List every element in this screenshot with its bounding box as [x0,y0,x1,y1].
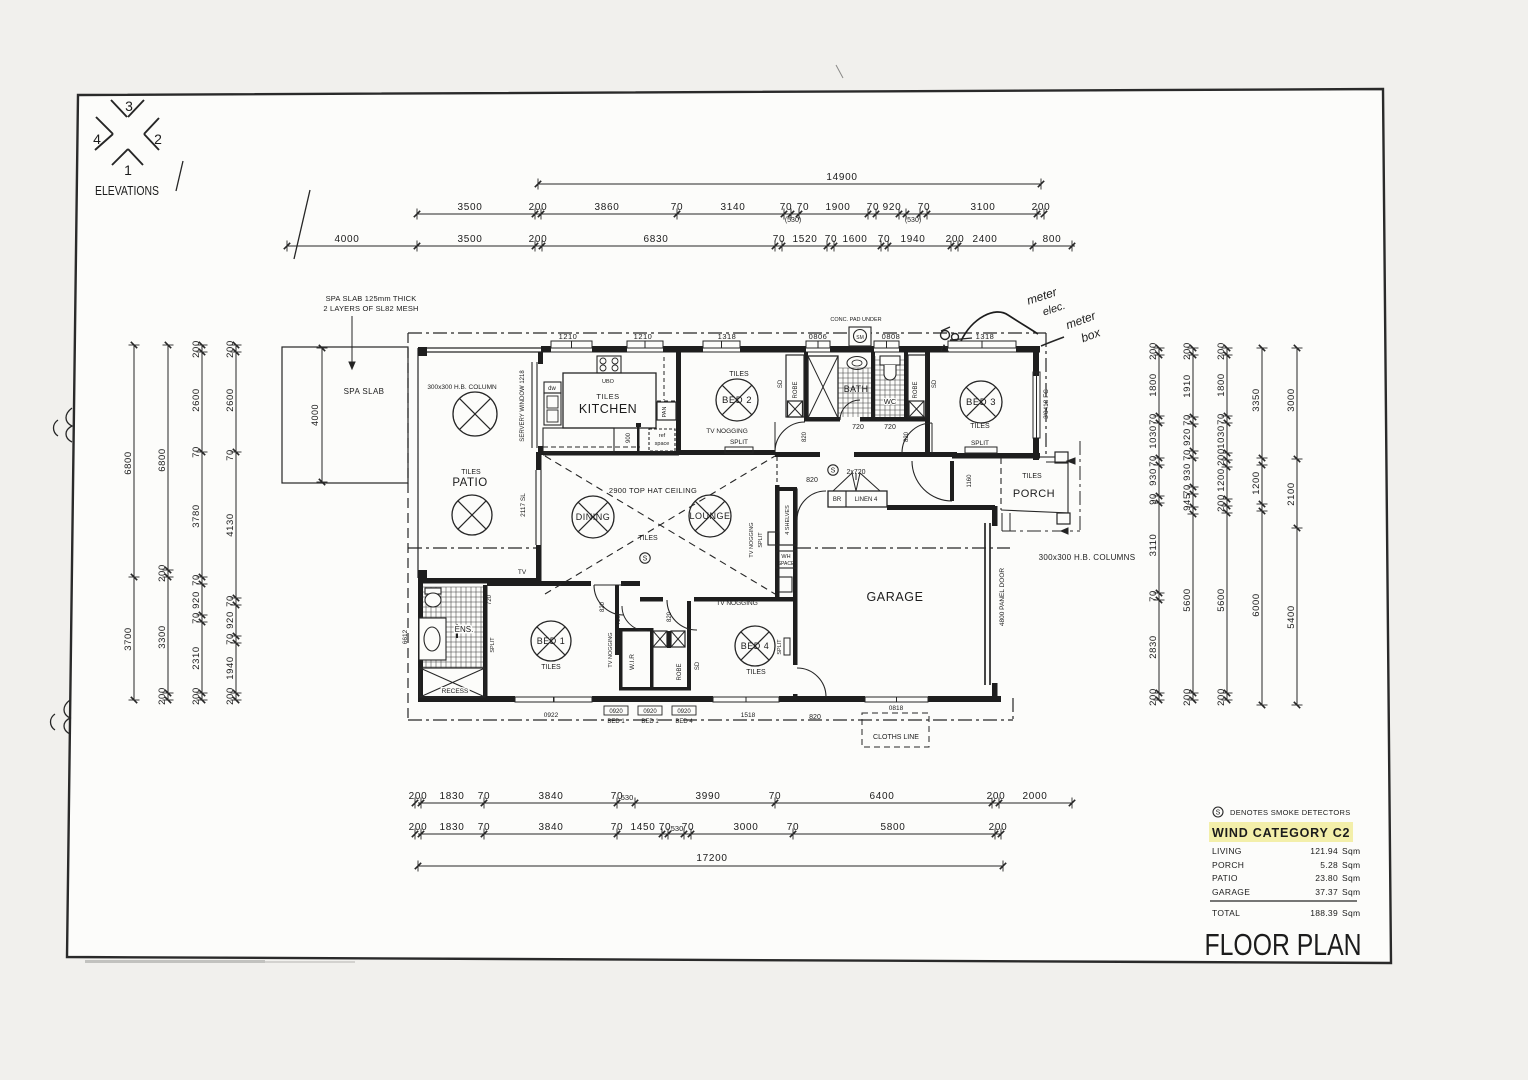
svg-text:SPLIT: SPLIT [777,639,783,655]
svg-text:0808: 0808 [882,332,901,341]
svg-text:200: 200 [1032,202,1051,213]
svg-text:5800: 5800 [880,822,905,833]
svg-text:70: 70 [1148,455,1159,467]
svg-text:TV NOGGING: TV NOGGING [706,428,748,435]
svg-text:TV NOGGING: TV NOGGING [716,600,758,607]
bed 4 [735,626,775,666]
svg-text:200: 200 [1148,342,1159,360]
svg-text:70: 70 [225,449,236,461]
kitchen [563,373,656,428]
svg-text:820: 820 [667,611,673,622]
svg-text:5400: 5400 [1286,605,1297,629]
svg-text:1160: 1160 [967,474,973,488]
svg-text:W.I.R: W.I.R [629,654,636,670]
svg-text:1800: 1800 [1148,373,1159,397]
svg-text:6800: 6800 [157,448,168,472]
svg-text:70: 70 [191,574,202,586]
svg-text:SPACE: SPACE [778,561,795,567]
svg-text:SPLIT: SPLIT [490,637,496,653]
border break squiggles [66,408,72,442]
svg-text:PATIO: PATIO [1212,873,1238,883]
exterior walls [418,347,541,349]
svg-text:ROBE: ROBE [677,663,683,680]
svg-text:S: S [1216,810,1221,817]
svg-text:GARAGE: GARAGE [1212,887,1250,897]
svg-text:200: 200 [529,202,548,213]
svg-text:3700: 3700 [123,627,134,651]
svg-text:0920: 0920 [677,709,691,715]
svg-text:200: 200 [1182,688,1193,706]
svg-text:1940: 1940 [900,234,925,245]
shelves [779,489,797,545]
svg-text:2600: 2600 [191,388,202,412]
svg-text:200: 200 [225,687,236,705]
svg-text:820: 820 [802,431,808,442]
top dimension chain row3 [287,245,1075,247]
legend smoke detectors [1213,807,1223,817]
svg-text:BR: BR [833,497,842,503]
sheet border [67,89,1391,963]
svg-text:945: 945 [1182,493,1193,511]
svg-text:ref: ref [659,433,666,439]
svg-text:ROBE: ROBE [913,381,919,398]
svg-text:920: 920 [883,202,902,213]
svg-text:6612: 6612 [402,629,409,644]
svg-text:BED 4: BED 4 [675,719,693,725]
svg-text:PATIO: PATIO [452,477,487,489]
svg-text:1940: 1940 [225,656,236,680]
svg-text:TOTAL: TOTAL [1212,908,1240,918]
svg-text:SPA SLAB: SPA SLAB [344,387,385,396]
svg-text:2830: 2830 [1148,635,1159,659]
svg-text:SPLIT: SPLIT [971,440,989,447]
bed 3 [960,381,1002,423]
svg-text:GARAGE: GARAGE [866,590,923,604]
svg-text:70: 70 [1148,413,1159,425]
svg-text:1: 1 [124,162,132,178]
svg-text:200: 200 [157,687,168,705]
svg-text:70: 70 [769,791,782,802]
svg-text:BED 1: BED 1 [537,636,566,646]
svg-text:820: 820 [809,714,821,721]
svg-text:3000: 3000 [1286,388,1297,412]
svg-text:1830: 1830 [439,791,464,802]
svg-text:TILES: TILES [746,669,766,676]
svg-text:530: 530 [621,793,634,802]
interior walls [676,352,681,455]
svg-text:820: 820 [806,477,818,484]
svg-text:SD: SD [778,379,784,388]
svg-text:SD: SD [695,661,701,670]
svg-text:200: 200 [1216,448,1227,466]
svg-text:3'0418 FC: 3'0418 FC [1043,389,1050,419]
svg-text:23.80: 23.80 [1315,873,1338,883]
svg-text:1030: 1030 [1148,425,1159,449]
svg-text:200: 200 [1216,494,1227,512]
svg-text:SPLIT: SPLIT [758,532,764,548]
svg-text:6830: 6830 [643,234,668,245]
svg-text:DINING: DINING [576,512,611,522]
svg-text:1210: 1210 [634,332,653,341]
svg-text:KITCHEN: KITCHEN [579,402,637,416]
svg-text:6000: 6000 [1251,593,1262,617]
svg-text:70: 70 [797,202,810,213]
svg-text:2100: 2100 [1286,482,1297,506]
svg-text:70: 70 [191,612,202,624]
svg-text:0922: 0922 [544,712,559,719]
elevation marker [111,100,144,117]
svg-text:4000: 4000 [310,404,320,426]
svg-text:LINEN 4: LINEN 4 [855,497,878,503]
svg-text:1800: 1800 [1216,373,1227,397]
svg-text:2117 SL: 2117 SL [520,493,527,517]
svg-text:SERVERY WINDOW 1218: SERVERY WINDOW 1218 [520,370,526,442]
svg-text:200: 200 [1216,688,1227,706]
svg-text:70: 70 [478,791,491,802]
svg-text:200: 200 [1216,342,1227,360]
2900 top hat ceiling dashed X [545,456,775,594]
svg-text:TILES: TILES [1022,473,1042,480]
svg-text:930: 930 [1182,463,1193,481]
svg-text:0920: 0920 [609,709,623,715]
svg-text:820: 820 [600,601,606,612]
svg-text:37.37: 37.37 [1315,887,1338,897]
wind category highlight [1209,822,1353,842]
svg-text:70: 70 [478,822,491,833]
wc [875,356,905,417]
svg-text:920: 920 [1182,428,1193,446]
svg-text:TILES: TILES [541,664,561,671]
svg-text:2600: 2600 [225,388,236,412]
door arcs [775,422,805,452]
svg-text:PORCH: PORCH [1212,860,1244,870]
svg-text:4000: 4000 [334,234,359,245]
svg-text:14900: 14900 [826,172,857,183]
svg-text:0818: 0818 [889,705,904,712]
svg-text:RECESS: RECESS [442,688,469,695]
svg-text:3350: 3350 [1251,388,1262,412]
svg-text:4800 PANEL DOOR: 4800 PANEL DOOR [999,568,1006,626]
handwritten meter box notes [961,312,1038,341]
eave overhang dash-dot outline [408,332,1046,334]
svg-text:1200: 1200 [1251,471,1262,495]
svg-text:PORCH: PORCH [1013,488,1055,500]
svg-text:3110: 3110 [1148,534,1159,557]
svg-text:TV NOGGING: TV NOGGING [749,522,755,557]
svg-text:70: 70 [1148,590,1159,602]
svg-text:200: 200 [191,340,202,358]
svg-text:TILES: TILES [729,371,749,378]
top dimension chain 14900 [538,183,1041,185]
linen [828,465,838,475]
svg-text:930: 930 [1148,468,1159,486]
svg-text:1030: 1030 [1216,425,1227,449]
svg-text:720: 720 [487,594,493,605]
top dimension chain row2 [417,213,1041,215]
svg-text:200: 200 [989,822,1008,833]
ensuite [421,587,485,668]
svg-text:FLOOR PLAN: FLOOR PLAN [1205,927,1362,962]
svg-text:ENS.: ENS. [455,625,474,634]
svg-text:820: 820 [904,431,910,442]
svg-text:70: 70 [1182,414,1193,426]
svg-text:S: S [831,468,836,475]
svg-text:6800: 6800 [123,451,134,475]
svg-text:1520: 1520 [792,234,817,245]
right dimension chains [1158,348,1160,700]
svg-text:SPLIT: SPLIT [730,439,748,446]
svg-text:2000: 2000 [1022,791,1047,802]
svg-text:1910: 1910 [1182,374,1193,398]
svg-text:300x300 H.B. COLUMN: 300x300 H.B. COLUMN [427,384,497,391]
svg-text:1518: 1518 [741,712,756,719]
svg-text:3500: 3500 [457,202,482,213]
svg-text:BED 4: BED 4 [741,641,770,651]
svg-text:LOUNGE: LOUNGE [689,511,730,521]
svg-text:900: 900 [626,432,632,443]
svg-text:4 SHELVES: 4 SHELVES [785,505,791,535]
svg-text:SM: SM [856,335,864,341]
svg-text:ELEVATIONS: ELEVATIONS [95,183,159,198]
svg-text:2 LAYERS OF SL82 MESH: 2 LAYERS OF SL82 MESH [323,304,418,313]
bath [808,356,838,418]
svg-text:BED 1: BED 1 [607,719,625,725]
svg-text:720: 720 [852,424,864,431]
svg-text:920: 920 [191,591,202,609]
svg-text:188.39: 188.39 [1310,908,1338,918]
svg-text:70: 70 [682,822,695,833]
svg-text:BED 1: BED 1 [641,719,659,725]
svg-text:3990: 3990 [695,791,720,802]
svg-text:6400: 6400 [869,791,894,802]
svg-text:121.94: 121.94 [1310,846,1338,856]
svg-text:TILES: TILES [461,469,481,476]
svg-text:dw: dw [548,386,556,392]
svg-text:2: 2 [154,131,162,147]
svg-text:1600: 1600 [842,234,867,245]
svg-text:(530): (530) [905,217,921,224]
svg-text:BATH: BATH [844,384,869,394]
svg-text:200: 200 [409,791,428,802]
svg-text:SD: SD [932,379,938,388]
svg-text:200: 200 [191,687,202,705]
svg-text:1200: 1200 [1216,468,1227,492]
svg-text:BED 3: BED 3 [966,397,996,408]
svg-text:200: 200 [1182,342,1193,360]
svg-text:70: 70 [773,234,786,245]
svg-text:70: 70 [878,234,891,245]
svg-text:TV NOGGING: TV NOGGING [608,632,614,667]
svg-text:17200: 17200 [696,853,727,864]
left dimension chains [133,345,135,700]
svg-text:70: 70 [780,202,793,213]
svg-text:4130: 4130 [225,513,236,537]
svg-text:720: 720 [884,424,896,431]
svg-text:5600: 5600 [1182,588,1193,612]
svg-text:TILES: TILES [596,392,619,401]
svg-text:CONC. PAD UNDER: CONC. PAD UNDER [830,317,881,323]
svg-text:2400: 2400 [972,234,997,245]
svg-text:200: 200 [157,564,168,582]
svg-text:Sqm: Sqm [1342,846,1360,856]
svg-text:PAN: PAN [662,407,668,418]
svg-text:BED 2: BED 2 [722,395,752,406]
svg-text:LIVING: LIVING [1212,846,1242,856]
svg-text:UBO: UBO [602,379,615,385]
svg-text:SPA SLAB 125mm THICK: SPA SLAB 125mm THICK [326,294,417,303]
spa slab [282,347,408,483]
bottom dimension chains [418,802,1072,804]
svg-text:space: space [655,441,670,447]
svg-text:70: 70 [611,822,624,833]
bed 1 [531,621,571,661]
svg-text:70: 70 [825,234,838,245]
svg-text:200: 200 [987,791,1006,802]
svg-text:(530): (530) [785,217,801,224]
svg-text:0806: 0806 [809,332,828,341]
svg-text:5.28: 5.28 [1320,860,1338,870]
svg-text:TILES: TILES [970,423,990,430]
porch [1000,458,1002,510]
svg-text:3840: 3840 [538,822,563,833]
svg-text:70: 70 [1216,413,1227,425]
svg-text:3780: 3780 [191,504,202,528]
svg-text:200: 200 [946,234,965,245]
svg-text:1210: 1210 [559,332,578,341]
svg-text:920: 920 [225,611,236,629]
svg-text:2900 TOP HAT CEILING: 2900 TOP HAT CEILING [609,486,697,495]
svg-text:3: 3 [125,98,133,114]
svg-text:1900: 1900 [825,202,850,213]
svg-text:S: S [643,556,648,563]
svg-text:70: 70 [1182,449,1193,461]
svg-text:4: 4 [93,131,101,147]
svg-text:800: 800 [1043,234,1062,245]
svg-text:Sqm: Sqm [1342,860,1360,870]
svg-text:70: 70 [225,595,236,607]
svg-text:TILES: TILES [638,535,658,542]
svg-text:WC: WC [884,397,897,406]
svg-text:Sqm: Sqm [1342,873,1360,883]
svg-text:1830: 1830 [439,822,464,833]
svg-text:3000: 3000 [733,822,758,833]
svg-text:CLOTHS LINE: CLOTHS LINE [873,734,919,741]
svg-text:Sqm: Sqm [1342,908,1360,918]
svg-text:2310: 2310 [191,646,202,670]
svg-text:70: 70 [225,633,236,645]
svg-text:0920: 0920 [643,709,657,715]
svg-text:DENOTES SMOKE DETECTORS: DENOTES SMOKE DETECTORS [1230,808,1351,817]
svg-text:5600: 5600 [1216,588,1227,612]
svg-text:ROBE: ROBE [793,381,799,398]
svg-text:1318: 1318 [718,332,737,341]
svg-text:70: 70 [659,822,672,833]
svg-text:70: 70 [867,202,880,213]
svg-text:Sqm: Sqm [1342,887,1360,897]
svg-text:70: 70 [787,822,800,833]
svg-text:WIND CATEGORY C2: WIND CATEGORY C2 [1212,826,1350,840]
svg-text:1318: 1318 [976,332,995,341]
svg-text:200: 200 [225,340,236,358]
svg-text:3500: 3500 [457,234,482,245]
svg-text:70: 70 [918,202,931,213]
svg-text:530: 530 [671,824,684,833]
patio [418,347,427,356]
svg-text:3140: 3140 [720,202,745,213]
svg-text:1450: 1450 [630,822,655,833]
svg-text:WH: WH [781,554,790,560]
svg-text:720: 720 [616,614,622,625]
svg-text:3300: 3300 [157,625,168,649]
svg-text:TV: TV [518,569,527,576]
svg-text:200: 200 [529,234,548,245]
svg-text:300x300 H.B. COLUMNS: 300x300 H.B. COLUMNS [1039,553,1136,562]
svg-text:70: 70 [191,446,202,458]
svg-text:200: 200 [1148,688,1159,706]
svg-text:3860: 3860 [594,202,619,213]
svg-text:3840: 3840 [538,791,563,802]
svg-text:90: 90 [1148,493,1159,505]
svg-text:3100: 3100 [970,202,995,213]
svg-text:200: 200 [409,822,428,833]
svg-text:70: 70 [671,202,684,213]
